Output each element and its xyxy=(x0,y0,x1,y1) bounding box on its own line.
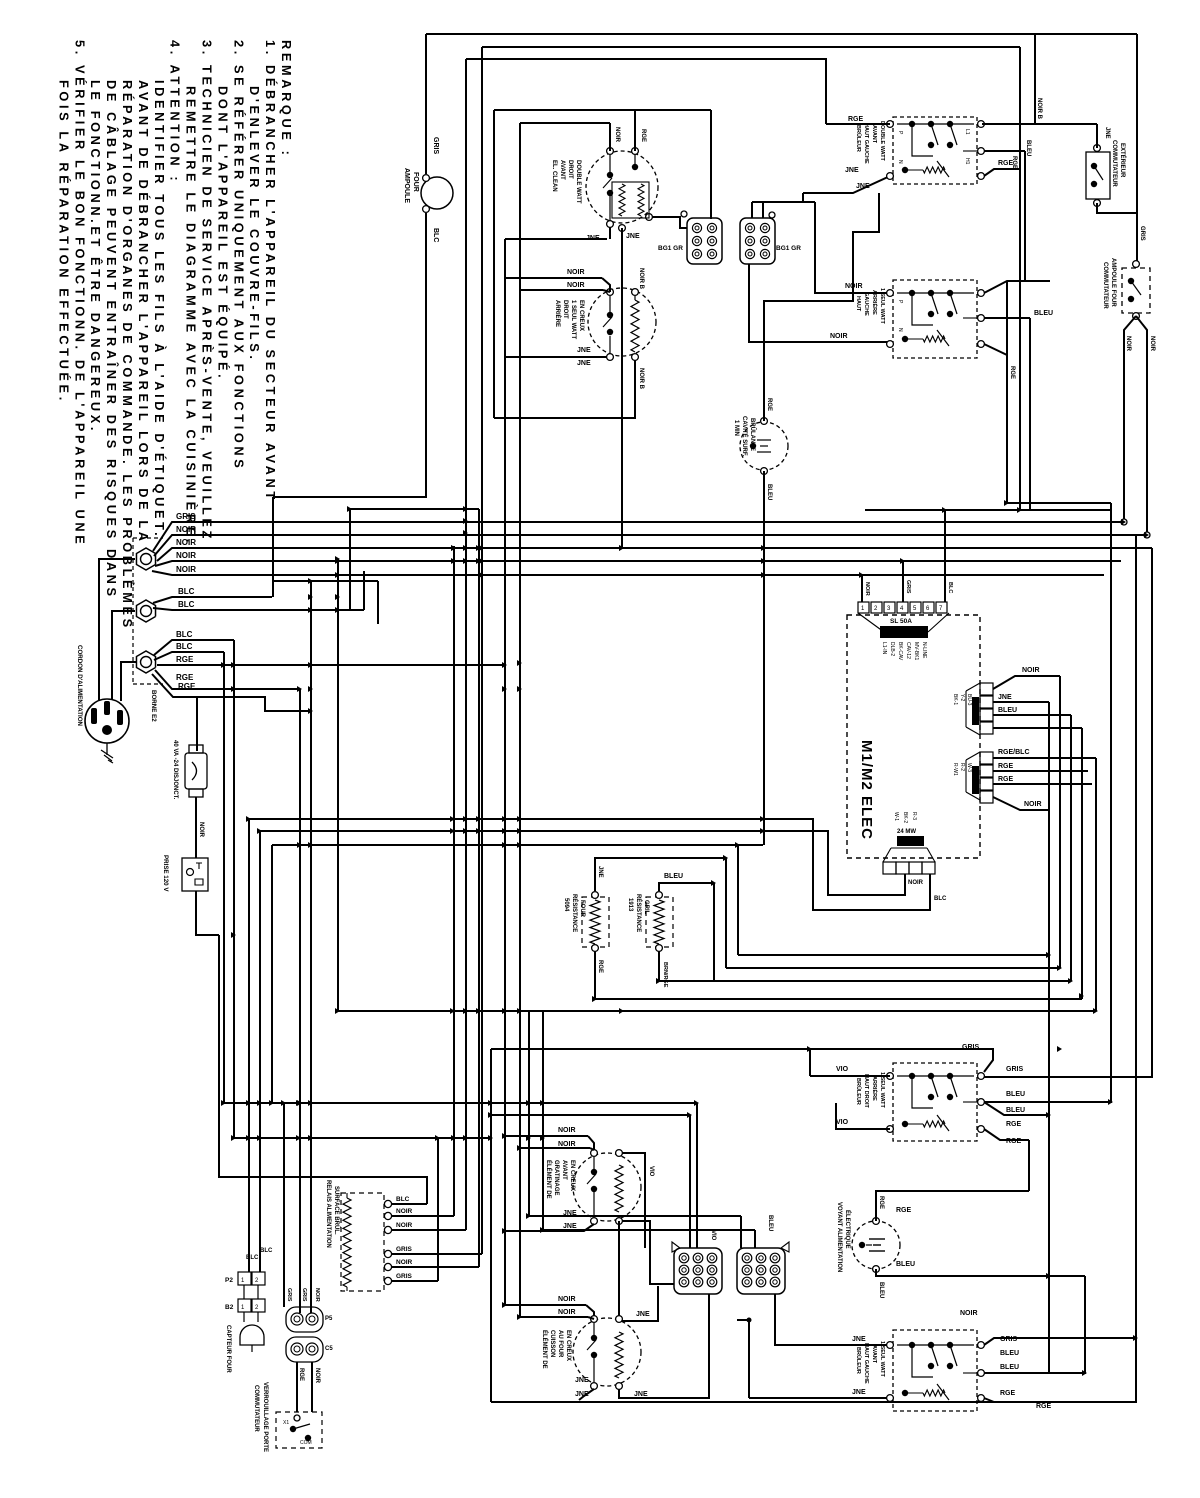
wire ext switch bottom xyxy=(1097,203,1137,213)
svg-text:NOIR: NOIR xyxy=(558,1309,576,1316)
svg-text:JNE: JNE xyxy=(852,1389,866,1396)
svg-text:H1: H1 xyxy=(964,158,970,165)
svg-text:BK-CAV: BK-CAV xyxy=(897,642,903,661)
wire BLC row 1 xyxy=(153,597,272,603)
svg-text:GRIS: GRIS xyxy=(1000,1336,1017,1343)
wires above header xyxy=(861,575,863,602)
wire x505 long xyxy=(504,239,506,1305)
svg-text:D'ENLEVER LE COUVRE-FILS.: D'ENLEVER LE COUVRE-FILS. xyxy=(247,86,262,362)
svg-text:NOIR: NOIR xyxy=(396,1208,413,1215)
svg-text:RGE: RGE xyxy=(597,960,603,973)
svg-text:BRÛLANTE: BRÛLANTE xyxy=(749,418,756,451)
svg-text:NOIR: NOIR xyxy=(176,538,196,547)
svg-text:NOIR B: NOIR B xyxy=(638,368,644,390)
svg-text:SURFACE BRÛL.: SURFACE BRÛL. xyxy=(333,1186,340,1235)
wire row 503 xyxy=(1007,502,1111,504)
svg-text:X1: X1 xyxy=(283,1420,289,1426)
svg-text:JNE: JNE xyxy=(852,1336,866,1343)
svg-text:BK-1: BK-1 xyxy=(952,694,958,705)
svg-text:EN CREUX: EN CREUX xyxy=(569,1160,575,1191)
svg-text:BLC: BLC xyxy=(246,1255,259,1261)
wire H2 left vertical xyxy=(481,47,483,1254)
door latch switch COMMUTATEUR VERROUILLAGE PORTE xyxy=(276,1412,322,1448)
svg-text:BLEU: BLEU xyxy=(1000,1350,1019,1357)
svg-text:GRIS: GRIS xyxy=(176,512,196,521)
switch3 dashed box xyxy=(893,1063,977,1141)
wire BLC row 4 xyxy=(154,652,224,660)
connector 9pin left xyxy=(674,1248,722,1294)
wire BLC row 3 xyxy=(154,640,234,655)
switch4 right wires xyxy=(984,1338,1137,1345)
svg-text:JNE: JNE xyxy=(577,347,591,354)
wire x338 long xyxy=(337,559,339,1011)
bake element dashed circle xyxy=(573,1318,641,1386)
svg-text:NOIR: NOIR xyxy=(396,1259,413,1266)
svg-text:REMARQUE :: REMARQUE : xyxy=(279,40,294,158)
element ARRIERE DROIT dashed circle xyxy=(588,288,656,356)
wire res2 top xyxy=(659,883,714,891)
svg-text:GRIS: GRIS xyxy=(432,137,439,154)
svg-text:1913: 1913 xyxy=(627,898,633,912)
svg-text:RGE: RGE xyxy=(848,116,864,123)
control M1/M2 ELEC dashed box xyxy=(847,615,980,858)
wire JNE broil to connector xyxy=(622,1221,674,1284)
svg-text:JNE: JNE xyxy=(626,233,640,240)
svg-text:RGE: RGE xyxy=(766,398,772,411)
svg-text:DOUBLE WATT: DOUBLE WATT xyxy=(879,121,885,162)
svg-text:CAPTEUR FOUR: CAPTEUR FOUR xyxy=(225,1325,231,1373)
svg-text:NOIR: NOIR xyxy=(558,1127,576,1134)
svg-text:1 SEUL WATT: 1 SEUL WATT xyxy=(570,300,576,339)
wire nest row 981 xyxy=(659,980,1071,982)
wire JNE bake top to connector xyxy=(622,1286,658,1321)
svg-text:JNE: JNE xyxy=(845,167,859,174)
svg-text:EXTÉRIEUR: EXTÉRIEUR xyxy=(1119,143,1127,178)
svg-text:40 VA -24 DISJONCT.: 40 VA -24 DISJONCT. xyxy=(172,740,178,800)
round connector lower xyxy=(286,1337,323,1362)
wire top H2 xyxy=(482,46,1020,48)
svg-text:EL. CLEAN: EL. CLEAN xyxy=(551,160,557,192)
svg-text:VIO: VIO xyxy=(648,1166,654,1177)
svg-text:GRIS: GRIS xyxy=(301,1288,307,1302)
svg-text:NOIR: NOIR xyxy=(1149,336,1155,352)
wires P1 pins xyxy=(993,676,1060,689)
svg-text:BLEU: BLEU xyxy=(1034,310,1053,317)
svg-text:2. SE RÉFÉRER UNIQUEMENT AUX F: 2. SE RÉFÉRER UNIQUEMENT AUX FONCTIONS xyxy=(231,40,246,471)
svg-text:EN CREUX: EN CREUX xyxy=(578,300,584,331)
right long verticals xyxy=(1110,503,1112,1103)
svg-text:RGE: RGE xyxy=(1009,366,1015,379)
wire row 1230 right xyxy=(543,1229,755,1231)
svg-text:RGE: RGE xyxy=(176,655,194,664)
svg-text:JNE: JNE xyxy=(577,360,591,367)
svg-text:BLEU: BLEU xyxy=(1006,1107,1025,1114)
svg-text:JNE: JNE xyxy=(563,1210,577,1217)
svg-text:DLB-2: DLB-2 xyxy=(889,642,895,656)
svg-text:GRIS: GRIS xyxy=(1139,226,1145,241)
svg-text:BLC: BLC xyxy=(178,587,195,596)
wire top H1 xyxy=(426,33,1137,35)
wire x520 long xyxy=(519,123,521,1317)
svg-text:BLC: BLC xyxy=(176,642,193,651)
svg-text:NOIR: NOIR xyxy=(558,1296,576,1303)
svg-text:R-W1: R-W1 xyxy=(952,763,958,776)
power pilot light VOYANT ALIMENTATION xyxy=(852,1221,900,1269)
pin header strip xyxy=(858,602,869,613)
svg-text:MV-BK1: MV-BK1 xyxy=(913,642,919,661)
svg-text:B2: B2 xyxy=(225,1304,234,1311)
svg-text:NOIR: NOIR xyxy=(314,1288,320,1302)
svg-text:NOIR: NOIR xyxy=(176,551,196,560)
wires broil element top xyxy=(505,1135,588,1137)
switch1 HAUT GAUCHE AVANT DOUBLE dashed box xyxy=(893,117,977,184)
svg-text:CAVITÉ SURF.: CAVITÉ SURF. xyxy=(741,416,749,457)
svg-text:HAUT GAUCHE: HAUT GAUCHE xyxy=(863,1343,869,1384)
svg-text:JNE: JNE xyxy=(998,694,1012,701)
wire P3 BLC vertical xyxy=(248,819,250,1272)
wire BLC from light xyxy=(273,213,426,497)
svg-text:1 SEUL WATT: 1 SEUL WATT xyxy=(879,288,885,324)
element EL.CLEAN AVANT DROIT dashed circle xyxy=(586,151,658,223)
wire res1 bottom xyxy=(594,951,596,999)
svg-text:GRATINAGE: GRATINAGE xyxy=(553,1160,559,1196)
connector BG1 GR left xyxy=(687,218,722,264)
svg-text:JNE: JNE xyxy=(634,1391,648,1398)
power cord plug CORDON D'ALIMENTATION xyxy=(85,699,129,743)
svg-text:RELAIS ALIMENTATION: RELAIS ALIMENTATION xyxy=(325,1180,331,1248)
svg-text:GRIL: GRIL xyxy=(643,900,649,915)
svg-text:IDENTIFIER TOUS LES FILS À L'A: IDENTIFIER TOUS LES FILS À L'AIDE D'ÉTIQ… xyxy=(152,80,167,539)
wire nest row 968 xyxy=(726,967,1060,969)
svg-text:P2: P2 xyxy=(225,1277,233,1284)
svg-text:NOIR: NOIR xyxy=(830,333,848,340)
wire right border vertical xyxy=(1136,34,1138,264)
svg-text:COMMUTATEUR: COMMUTATEUR xyxy=(253,1385,259,1432)
wire NOIR row 2 xyxy=(157,548,1152,561)
svg-text:Y-2: Y-2 xyxy=(959,694,965,702)
switch2 right wires xyxy=(984,281,1050,293)
wire lamp bottom xyxy=(763,471,765,845)
svg-text:L1: L1 xyxy=(964,129,970,135)
svg-text:BLEU: BLEU xyxy=(1000,1364,1019,1371)
svg-text:NOIR: NOIR xyxy=(198,822,204,838)
svg-text:COMMUTATEUR: COMMUTATEUR xyxy=(1102,262,1108,309)
wire x1020 xyxy=(1019,47,1021,510)
svg-text:NOIR: NOIR xyxy=(908,880,924,886)
wire row 1138 xyxy=(234,1137,491,1139)
svg-text:GRIS: GRIS xyxy=(396,1273,413,1280)
svg-text:CORDON D'ALIMENTATION: CORDON D'ALIMENTATION xyxy=(76,645,83,727)
wire BLC4 vertical xyxy=(223,652,225,1103)
wire element1 to connector xyxy=(652,217,687,228)
wire JNE row 239 xyxy=(505,238,607,240)
svg-text:AMPOULE FOUR: AMPOULE FOUR xyxy=(1110,258,1116,307)
svg-text:ÉLÉMENT DE: ÉLÉMENT DE xyxy=(545,1160,553,1199)
wire relay r6 vertical xyxy=(437,1138,439,1281)
svg-text:NOIR: NOIR xyxy=(396,1222,413,1229)
wire NOIR B vertical xyxy=(621,228,623,548)
svg-text:HAUT GAUCHE: HAUT GAUCHE xyxy=(863,123,869,164)
terminal node 2 xyxy=(136,600,155,622)
wire pilot to switch4 xyxy=(984,1276,1085,1373)
wire RGE3 vertical xyxy=(310,581,312,1313)
relay RELAIS ALIMENTATION SURFACE BRUL dashed box xyxy=(341,1193,384,1291)
svg-text:HAUT: HAUT xyxy=(855,296,861,312)
wire VIO from broil xyxy=(622,1153,645,1248)
svg-text:24 MW: 24 MW xyxy=(897,829,916,835)
svg-text:REMETTRE LE DIAGRAMME AVEC LA: REMETTRE LE DIAGRAMME AVEC LA CUISINIÈRE… xyxy=(184,86,199,546)
wire conn2 to switch2 xyxy=(749,264,890,342)
wire conn2 feed row xyxy=(752,201,815,203)
wire nest row 955 xyxy=(738,954,1049,956)
svg-text:RÉSISTANCE: RÉSISTANCE xyxy=(571,894,579,932)
svg-text:COMMUTATEUR: COMMUTATEUR xyxy=(1111,140,1117,187)
wire row 509 xyxy=(350,508,479,510)
wire lamp top staircase xyxy=(764,193,879,421)
svg-text:R-2: R-2 xyxy=(959,763,965,771)
wires conn9 right bottom xyxy=(747,1318,752,1323)
broil element dashed circle xyxy=(573,1153,641,1221)
wire conn9 right to switch4 L1 xyxy=(775,1294,890,1345)
svg-text:ÉLECTRIQUE: ÉLECTRIQUE xyxy=(844,1210,852,1249)
svg-text:BLEU: BLEU xyxy=(998,707,1017,714)
svg-text:NOIR: NOIR xyxy=(176,525,196,534)
svg-text:RGE: RGE xyxy=(998,763,1014,770)
wire NOIR B from top xyxy=(1034,34,1036,124)
wire BLC return xyxy=(272,497,274,597)
svg-text:RÉSISTANCE: RÉSISTANCE xyxy=(635,894,643,932)
svg-text:BLC: BLC xyxy=(396,1196,410,1203)
switch4 dashed box xyxy=(893,1330,977,1411)
svg-text:FOUR: FOUR xyxy=(579,900,585,918)
wire x697 to connector xyxy=(696,1103,698,1248)
svg-text:AVANT: AVANT xyxy=(559,160,565,180)
element1 internals xyxy=(607,172,613,178)
svg-text:DE CÂBLAGE PEUVENT ENTRAÎNER D: DE CÂBLAGE PEUVENT ENTRAÎNER DES RISQUES… xyxy=(104,80,119,600)
wire row 831 xyxy=(260,831,905,895)
svg-text:JNE: JNE xyxy=(575,1391,589,1398)
svg-text:RGE/BLC: RGE/BLC xyxy=(998,749,1030,756)
wire pilot bottom xyxy=(876,1269,1085,1276)
wire JNE bake right xyxy=(619,1294,709,1398)
wires P3 pins down xyxy=(904,874,906,895)
wire row 581 xyxy=(273,580,378,582)
svg-text:AVANT: AVANT xyxy=(871,1345,877,1364)
wire row 510 xyxy=(865,509,1110,511)
wire x803 xyxy=(802,193,804,202)
svg-text:RGE: RGE xyxy=(1011,156,1017,169)
terminal node 1 xyxy=(136,548,155,570)
svg-text:NOIR: NOIR xyxy=(567,269,585,276)
svg-text:JNE: JNE xyxy=(575,1377,589,1384)
svg-text:BLC: BLC xyxy=(260,1248,273,1254)
svg-text:RGE: RGE xyxy=(878,1196,884,1209)
element frame wires xyxy=(494,109,711,111)
relay terminals and wires xyxy=(384,1200,391,1207)
wire switch1 L2 jne xyxy=(803,176,890,193)
terminal node 3 xyxy=(136,651,155,673)
svg-text:RGE: RGE xyxy=(1006,1121,1022,1128)
wire x454 long xyxy=(453,546,455,1216)
svg-text:1. DÉBRANCHER L'APPAREIL DU SE: 1. DÉBRANCHER L'APPAREIL DU SECTEUR AVAN… xyxy=(263,40,278,503)
svg-text:GRIS: GRIS xyxy=(962,1044,979,1051)
wire x738 xyxy=(737,845,739,955)
wire row 819 xyxy=(249,819,930,910)
svg-text:PRISE 120 V: PRISE 120 V xyxy=(162,855,169,892)
svg-text:RGE: RGE xyxy=(176,673,194,682)
wire x272 down xyxy=(271,845,273,1103)
svg-text:NOIR: NOIR xyxy=(614,127,620,143)
svg-text:GAUCHE: GAUCHE xyxy=(863,292,869,316)
wire nest row 999 xyxy=(595,998,1082,1000)
wire breaker to outlet xyxy=(195,797,197,858)
wires broil element bottom xyxy=(505,1224,594,1231)
wire res1 top xyxy=(595,858,726,891)
ground symbol xyxy=(106,743,108,755)
svg-text:DROIT: DROIT xyxy=(567,160,573,179)
svg-text:ARRIÈRE: ARRIÈRE xyxy=(871,1076,879,1101)
wire pilot top xyxy=(876,1191,1029,1221)
wire BLC row 2 xyxy=(153,608,364,610)
svg-text:BLEU: BLEU xyxy=(1025,140,1031,156)
terminal block dashed box xyxy=(132,538,134,684)
svg-text:R-3: R-3 xyxy=(911,812,917,820)
svg-text:DROIT: DROIT xyxy=(562,300,568,319)
svg-text:BG1 GR: BG1 GR xyxy=(658,245,683,252)
svg-text:NOIR: NOIR xyxy=(558,1141,576,1148)
wire res2 bottom xyxy=(658,951,660,981)
wire RGE row 2 xyxy=(155,670,300,689)
wire to relay feed xyxy=(219,935,427,1204)
round connector upper xyxy=(286,1307,323,1332)
wire NOIR row 3 xyxy=(155,561,1121,566)
svg-text:BLC: BLC xyxy=(432,228,439,242)
svg-text:RGE: RGE xyxy=(1000,1390,1016,1397)
svg-text:NOIR: NOIR xyxy=(864,582,870,596)
svg-text:5094: 5094 xyxy=(563,898,569,912)
wires below light switch xyxy=(1124,316,1136,522)
svg-text:1 SEUL WATT: 1 SEUL WATT xyxy=(879,1341,885,1377)
outlet PRISE 120 V xyxy=(182,858,208,891)
svg-text:NOIR: NOIR xyxy=(1022,667,1040,674)
svg-text:NOIR: NOIR xyxy=(176,565,196,574)
svg-text:BLEU: BLEU xyxy=(767,1215,773,1231)
wire BLC3 vertical xyxy=(233,640,235,1138)
wire x690 to connector xyxy=(689,1115,691,1248)
wire to breaker xyxy=(196,697,198,751)
svg-text:ARRIÈRE: ARRIÈRE xyxy=(554,300,562,327)
connector P2 xyxy=(980,752,993,764)
svg-text:N-LINE: N-LINE xyxy=(921,642,927,659)
svg-text:NOIR: NOIR xyxy=(1125,336,1131,352)
wire outlet down xyxy=(196,891,219,935)
connector P3 bottom xyxy=(883,862,896,874)
svg-text:DONT L'APPAREIL EST ÉQUIPÉ.: DONT L'APPAREIL EST ÉQUIPÉ. xyxy=(215,86,230,381)
svg-text:VIO: VIO xyxy=(836,1119,849,1126)
element2 internals xyxy=(607,312,613,318)
svg-text:ÉLÉMENT DE: ÉLÉMENT DE xyxy=(541,1330,549,1369)
svg-text:N: N xyxy=(897,160,903,164)
wire row 1049 xyxy=(491,1049,993,1072)
wires bake element bottom xyxy=(579,1389,594,1400)
svg-text:BLEU: BLEU xyxy=(1006,1091,1025,1098)
notes text block (rotated) xyxy=(56,40,294,631)
connector BG1 GR right xyxy=(740,218,775,264)
wire x350 xyxy=(349,509,351,610)
svg-text:BRN/RGE: BRN/RGE xyxy=(662,962,668,988)
wire row 1115 xyxy=(491,1114,690,1116)
svg-text:CUISSON: CUISSON xyxy=(549,1330,555,1357)
hot surface indicator lamp xyxy=(740,422,788,470)
svg-text:VERROUILLAGE PORTE: VERROUILLAGE PORTE xyxy=(262,1382,268,1452)
switch3 left wires xyxy=(810,1075,890,1077)
connector P1 xyxy=(980,683,993,695)
svg-text:BLC: BLC xyxy=(176,630,193,639)
wire row 1216 right xyxy=(529,1215,741,1217)
svg-text:COM: COM xyxy=(300,1440,312,1446)
wire conn1 top right pin xyxy=(710,218,712,220)
wire RGE row 1 xyxy=(157,664,505,666)
svg-text:W-3: W-3 xyxy=(966,763,972,772)
wire top H3 xyxy=(466,59,826,124)
svg-text:JNE: JNE xyxy=(636,1311,650,1318)
wire switch4 L2 feed xyxy=(749,1397,890,1399)
wires plug to nodes xyxy=(99,559,135,701)
svg-text:FOIS LA RÉPARATION EFFECTUÉE.: FOIS LA RÉPARATION EFFECTUÉE. xyxy=(56,80,71,404)
svg-text:BLEU: BLEU xyxy=(896,1261,915,1268)
oven sensor CAPTEUR FOUR xyxy=(243,1312,245,1322)
svg-text:LE FONCTIONN.ET ÊTRE DANGEREUX: LE FONCTIONN.ET ÊTRE DANGEREUX. xyxy=(88,80,103,434)
svg-text:AVANT DE DÉBRANCHER L'APPAREIL: AVANT DE DÉBRANCHER L'APPAREIL LORS DE L… xyxy=(136,80,151,545)
connector P2 plug xyxy=(238,1272,251,1285)
svg-text:AVANT: AVANT xyxy=(561,1160,567,1180)
wire rows into element2 xyxy=(505,277,602,279)
wire row548 to switch3 xyxy=(984,548,1152,1077)
wire x364 xyxy=(363,571,365,610)
svg-text:AVANT: AVANT xyxy=(871,125,877,144)
svg-text:JNE: JNE xyxy=(1104,127,1110,139)
connector B2 jack xyxy=(238,1299,251,1312)
wire GRIS to light xyxy=(425,34,427,174)
svg-text:NOIR: NOIR xyxy=(1024,801,1042,808)
svg-text:JNE: JNE xyxy=(856,183,870,190)
svg-text:BK-2: BK-2 xyxy=(902,812,908,823)
svg-text:RGE: RGE xyxy=(998,776,1014,783)
svg-text:NOIR: NOIR xyxy=(567,282,585,289)
wire x466 long xyxy=(465,59,467,1230)
wire row 1103 xyxy=(224,1102,697,1104)
wire RGE2 vertical xyxy=(299,689,301,1313)
wires to door switch xyxy=(296,1362,298,1412)
svg-text:L1-IN: L1-IN xyxy=(881,642,887,655)
svg-text:BRÛLEUR: BRÛLEUR xyxy=(855,1078,862,1105)
svg-text:VIO: VIO xyxy=(836,1066,849,1073)
wire nest verticals right xyxy=(1048,702,1050,1373)
svg-text:FOUR: FOUR xyxy=(412,172,419,192)
wire ext switch top xyxy=(1096,124,1098,148)
svg-text:BRÛLEUR: BRÛLEUR xyxy=(855,1347,862,1374)
exterior switch COMMUTATEUR EXTERIEUR xyxy=(1086,152,1110,199)
resistor RESISTANCE FOUR xyxy=(582,897,609,947)
svg-text:BORNE E2: BORNE E2 xyxy=(150,690,157,722)
wire GRIS row xyxy=(153,522,1124,551)
header trapezoid SL 50A xyxy=(858,613,884,632)
svg-text:GRIS: GRIS xyxy=(905,580,911,594)
svg-text:GRIS: GRIS xyxy=(396,1246,413,1253)
wire NOIR row 4 xyxy=(152,571,1104,575)
svg-text:BLEU: BLEU xyxy=(878,1282,884,1298)
svg-text:RGE: RGE xyxy=(640,129,646,142)
